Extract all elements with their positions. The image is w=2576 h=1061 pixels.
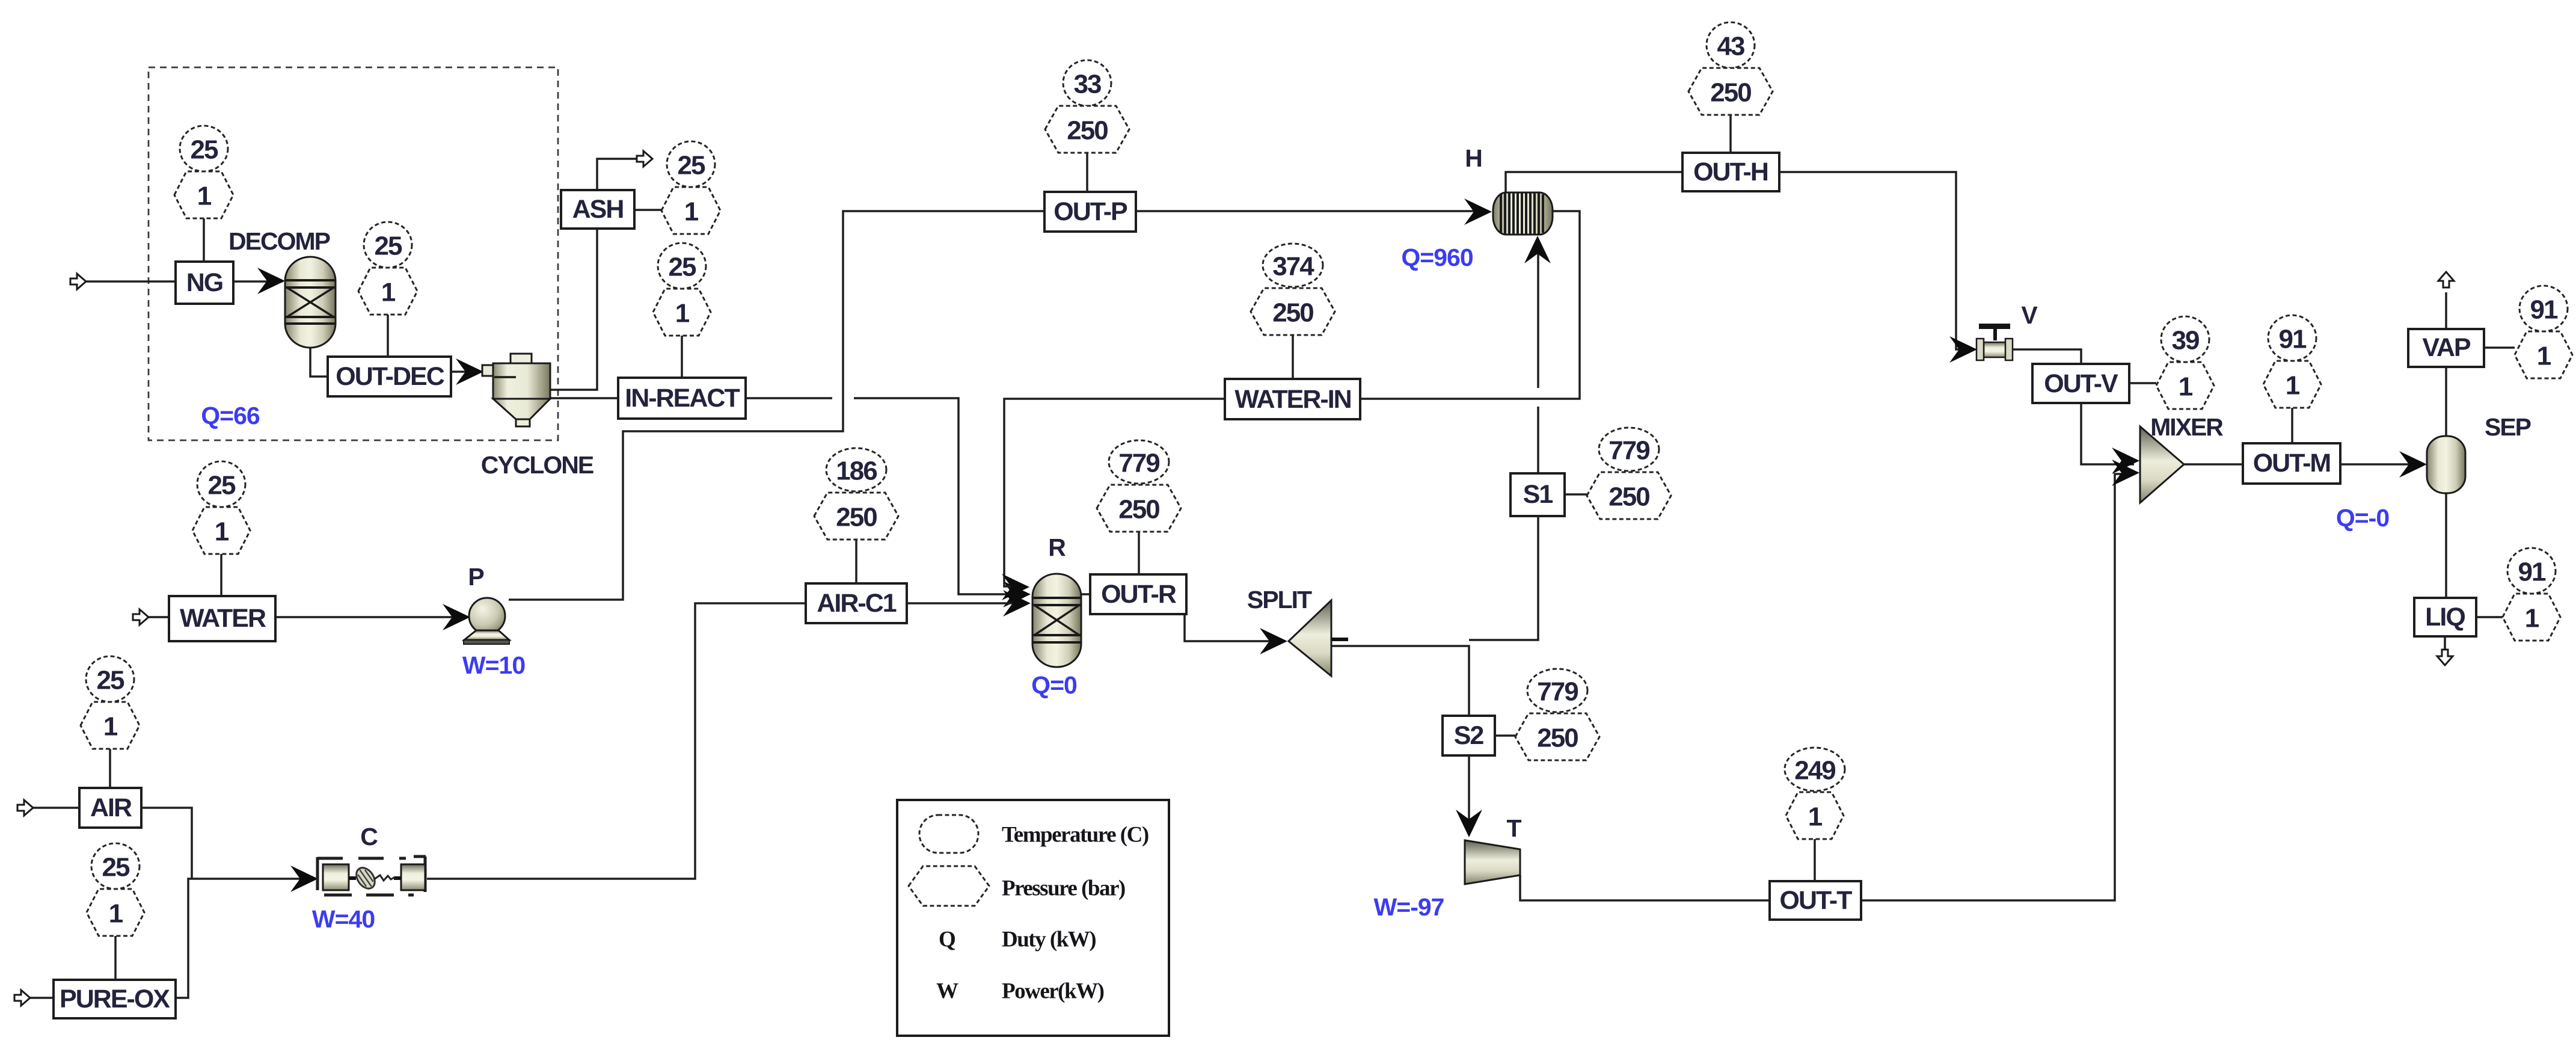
stream label OUT-V [2032,364,2129,403]
flag WATER temperature/pressure [192,461,250,596]
svg-text:25: 25 [208,471,236,500]
arrowhead AIR-C1 into R [1003,590,1031,617]
svg-text:33: 33 [1074,70,1101,99]
arrowhead S1 into H [1524,236,1551,263]
svg-text:25: 25 [669,253,696,282]
block SPLIT (flow splitter) [1247,586,1331,676]
svg-text:779: 779 [1118,449,1159,478]
wire CYCLONE to IN-REACT [546,397,618,399]
wire PURE-OX to compressor C [176,879,313,998]
flag VAP temperature/pressure [2484,286,2572,378]
stream label OUT-P [1044,192,1136,232]
svg-text:186: 186 [836,457,877,486]
svg-text:LIQ: LIQ [2425,603,2465,632]
block MIXER [2140,413,2223,503]
stream label LIQ [2414,598,2476,636]
stream label NG [176,262,233,304]
svg-text:374: 374 [1272,252,1314,281]
flag OUT-T temperature/pressure [1785,748,1845,881]
svg-text:Q: Q [939,927,955,952]
svg-text:Temperature (C): Temperature (C) [1002,823,1148,847]
svg-text:1: 1 [215,517,229,547]
arrowhead OUT-T into MIXER [2112,460,2139,486]
svg-text:AIR: AIR [90,793,132,822]
stream label OUT-H [1682,153,1779,191]
arrowhead into SEP [2399,451,2427,478]
svg-text:250: 250 [1118,495,1159,524]
wire OUT-V to MIXER [2081,403,2134,464]
flag AIR-C1 temperature/pressure [814,448,898,583]
svg-text:OUT-T: OUT-T [1780,886,1853,915]
stream label OUT-M [2243,443,2340,484]
svg-text:250: 250 [836,503,877,532]
svg-text:25: 25 [102,853,130,882]
wire SEP bottom to LIQ product [2445,492,2446,650]
svg-text:250: 250 [1608,482,1649,512]
svg-text:250: 250 [1272,298,1313,328]
block H (heat exchanger) [1401,144,1553,271]
wire MIXER to OUT-M [2184,463,2243,466]
svg-text:OUT-P: OUT-P [1053,197,1127,226]
feed arrow into AIR [17,800,33,816]
block DECOMP reactor (DECOMP) [201,227,336,429]
svg-text:R: R [1048,534,1066,561]
arrowhead IN-REACT into R [1003,581,1031,607]
feed arrow into NG [70,274,86,289]
wire S1 riser to H bottom [1469,241,1538,640]
wire R to OUT-R [1081,593,1090,595]
stream label WATER [169,596,275,641]
wire P to OUT-P to H [509,211,1486,600]
svg-text:1: 1 [2286,371,2300,401]
arrowhead into SPLIT [1260,628,1287,654]
flag IN-REACT temperature/pressure [653,243,711,378]
dashed group box around DECOMP section [149,67,558,440]
stream label S1 [1510,473,1565,516]
arrowhead OUT-V into MIXER [2112,447,2139,474]
svg-text:OUT-DEC: OUT-DEC [336,362,444,391]
svg-text:OUT-R: OUT-R [1101,580,1177,609]
svg-text:Q=0: Q=0 [1031,671,1077,699]
arrowhead into CYCLONE [456,358,483,385]
flag PURE-OX temperature/pressure [87,843,144,980]
svg-text:779: 779 [1537,677,1578,707]
arrowhead into P [443,604,470,630]
svg-text:MIXER: MIXER [2150,413,2223,441]
svg-text:25: 25 [375,232,402,261]
svg-text:91: 91 [2279,325,2307,354]
legend box [897,800,1169,1036]
arrowhead into C [290,866,318,892]
svg-text:ASH: ASH [572,195,624,224]
block CYCLONE [481,354,593,479]
svg-text:S2: S2 [1454,721,1484,750]
svg-text:NG: NG [186,268,223,297]
wire T outlet to OUT-T to MIXER [1520,474,2134,900]
svg-text:WATER-IN: WATER-IN [1234,385,1351,414]
wire OUT-M to SEP [2340,463,2422,466]
svg-text:250: 250 [1067,116,1108,146]
wire NG to DECOMP [233,280,283,283]
wire DECOMP to OUT-DEC [310,346,328,377]
arrowhead into DECOMP [257,268,285,294]
svg-text:Pressure (bar): Pressure (bar) [1002,876,1125,901]
svg-text:VAP: VAP [2422,333,2471,362]
svg-text:249: 249 [1794,756,1835,786]
arrowhead OUT-P into H [1464,198,1492,225]
svg-text:1: 1 [197,182,212,211]
stream label OUT-T [1770,881,1861,920]
stream label OUT-DEC [328,357,451,396]
flag OUT-R temperature/pressure [1097,440,1181,574]
svg-text:1: 1 [2525,604,2539,633]
flag OUT-DEC temperature/pressure [358,222,417,357]
svg-text:Power(kW): Power(kW) [1002,979,1104,1004]
svg-text:W=-97: W=-97 [1374,893,1444,921]
stream label IN-REACT [618,378,746,419]
wire CYCLONE to ASH riser [548,229,597,390]
svg-text:V: V [2021,301,2038,329]
svg-text:1: 1 [2537,342,2551,371]
svg-text:W=10: W=10 [462,651,525,679]
svg-text:DECOMP: DECOMP [228,227,330,255]
svg-text:25: 25 [97,666,124,695]
svg-text:SEP: SEP [2485,413,2531,441]
svg-text:P: P [468,563,483,591]
svg-text:250: 250 [1710,78,1751,108]
block C (multistage compressor) [312,823,426,933]
svg-text:25: 25 [678,151,705,180]
block V (valve) [1976,301,2038,360]
flag WATER-IN temperature/pressure [1251,244,1335,379]
svg-text:1: 1 [381,278,396,307]
arrowhead into valve V [1949,336,1977,363]
svg-text:W: W [936,979,958,1004]
feed arrow into PURE-OX [14,990,30,1006]
feed arrow into WATER [133,609,149,625]
svg-text:779: 779 [1608,436,1649,466]
svg-text:91: 91 [2518,558,2546,587]
flag S2 temperature/pressure [1495,669,1599,760]
flag LIQ temperature/pressure [2476,548,2560,641]
svg-text:1: 1 [1808,802,1823,832]
block P (pump) [462,563,525,679]
wire SEP top to VAP product [2445,292,2447,437]
stream label WATER-IN [1225,379,1360,419]
splitter S1 port stub [1331,638,1348,641]
svg-text:Q=960: Q=960 [1401,244,1473,271]
svg-text:IN-REACT: IN-REACT [625,384,740,413]
svg-text:AIR-C1: AIR-C1 [817,589,896,618]
block R reactor (R) [1031,534,1081,699]
svg-text:T: T [1506,814,1521,842]
flag OUT-H temperature/pressure [1688,22,1773,153]
wire SPLIT to S2 to turbine T [1331,646,1469,831]
svg-text:Q=66: Q=66 [201,402,260,429]
flag OUT-M temperature/pressure [2263,315,2321,443]
product arrow LIQ outlet [2437,650,2453,665]
stream label ASH [561,190,634,229]
svg-text:OUT-H: OUT-H [1693,158,1768,186]
block T (turbine) [1374,814,1522,921]
block SEP (flash separator) [2336,413,2531,532]
svg-text:SPLIT: SPLIT [1247,586,1312,614]
wire PURE-OX feed line [30,997,54,999]
stream label OUT-R [1090,574,1186,614]
svg-text:250: 250 [1537,724,1578,753]
flag OUT-P temperature/pressure [1045,60,1129,192]
wire C to AIR-C1 to R [427,603,1023,879]
svg-text:OUT-V: OUT-V [2044,369,2118,398]
arrowhead S2 into T [1456,810,1482,837]
svg-text:H: H [1465,144,1482,172]
wire H top outlet to OUT-H [1506,172,1682,194]
flag S1 temperature/pressure [1565,428,1671,519]
svg-text:CYCLONE: CYCLONE [481,451,593,479]
svg-text:PURE-OX: PURE-OX [60,985,170,1013]
stream label AIR-C1 [806,583,907,623]
arrowhead WATER-IN into R [1002,574,1029,600]
flag AIR temperature/pressure [81,656,140,788]
svg-text:W=40: W=40 [312,905,375,933]
svg-text:Q=-0: Q=-0 [2336,504,2389,532]
stream label AIR [79,788,141,828]
wire WATER to pump P [275,616,466,618]
wire ASH product line [597,159,636,190]
svg-text:91: 91 [2530,295,2558,325]
stream label S2 [1443,716,1495,755]
svg-text:WATER: WATER [180,604,266,633]
svg-text:1: 1 [103,712,118,742]
wire IN-REACT to R [746,398,1023,594]
wire AIR feed line [33,807,79,809]
svg-text:1: 1 [109,899,123,929]
wire AIR to junction [141,808,192,879]
wire OUT-H to valve V [1779,172,1972,349]
svg-text:1: 1 [2179,372,2193,402]
wire OUT-R to SPLIT [1185,614,1282,641]
svg-text:39: 39 [2172,326,2199,355]
svg-text:C: C [360,823,378,850]
wire WATER-IN line H to R [1004,211,1580,586]
svg-text:1: 1 [675,299,690,328]
svg-text:25: 25 [191,135,218,165]
wire valve V to OUT-V [2012,349,2081,364]
wire WATER feed line [149,616,169,618]
svg-text:1: 1 [684,197,699,227]
wire OUT-DEC to CYCLONE [451,371,480,373]
svg-text:S1: S1 [1523,480,1553,509]
svg-text:OUT-M: OUT-M [2253,449,2331,478]
wire NG feed line [86,280,176,283]
stream label PURE-OX [54,980,176,1018]
flag ASH temperature/pressure [634,141,720,234]
svg-text:43: 43 [1717,32,1744,61]
product arrow VAP outlet [2438,272,2454,288]
product arrow ASH outlet [637,151,652,167]
stream label VAP [2408,329,2484,367]
flag NG temperature/pressure [174,126,233,262]
svg-text:Duty (kW): Duty (kW) [1002,927,1096,952]
flag OUT-V temperature/pressure [2129,316,2214,409]
